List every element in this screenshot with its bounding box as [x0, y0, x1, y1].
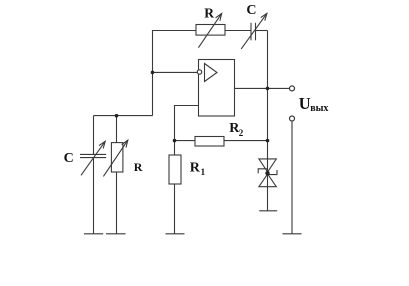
svg-text:C: C: [246, 3, 256, 18]
svg-text:U: U: [299, 94, 311, 113]
svg-text:R: R: [134, 160, 143, 174]
svg-text:R: R: [204, 5, 214, 20]
svg-text:вых: вых: [310, 103, 328, 114]
svg-text:R: R: [190, 161, 201, 176]
svg-text:2: 2: [239, 128, 244, 138]
svg-text:1: 1: [201, 167, 206, 177]
svg-text:C: C: [64, 151, 74, 166]
